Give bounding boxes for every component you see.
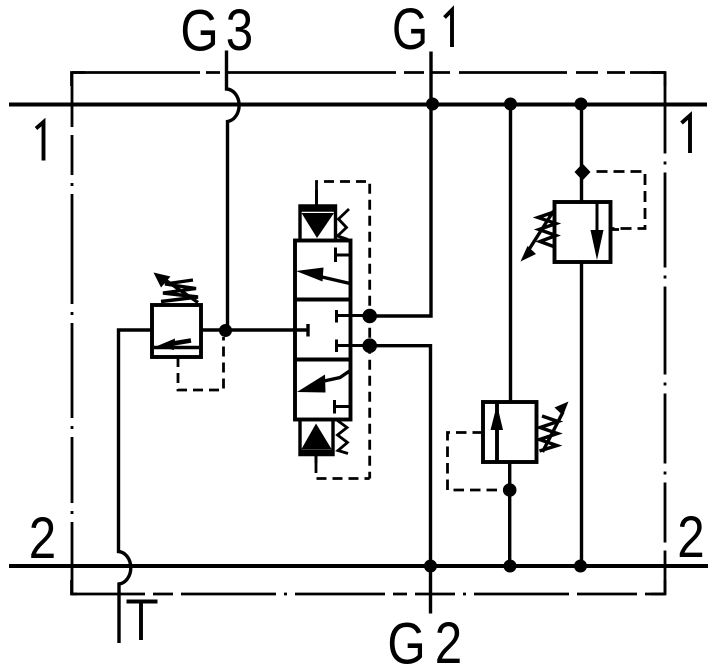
svg-text:G: G <box>387 612 425 672</box>
counterbalance valve CV1 body <box>483 402 537 462</box>
wire RV2 to line2 <box>580 262 583 566</box>
label 1 left <box>36 122 44 161</box>
svg-text:3: 3 <box>226 0 253 63</box>
counterbalance valve CV1 adjustable spring <box>540 412 564 452</box>
pilot line RV2 (dashed) <box>597 172 646 229</box>
port line 2 <box>9 564 708 568</box>
label T <box>127 602 158 641</box>
svg-text:G: G <box>392 0 428 62</box>
DV1 bottom position: blocked port <box>335 400 351 414</box>
wire G2 line <box>370 346 431 614</box>
svg-text:2: 2 <box>677 505 704 570</box>
directional valve DV1 body <box>295 241 351 420</box>
pilot line CV1 (dashed) <box>448 433 505 491</box>
node line1-G1 <box>426 98 439 111</box>
relief valve RV1 body <box>152 305 201 357</box>
node line1-right <box>575 98 588 111</box>
manifold block boundary (chain line) <box>72 73 665 595</box>
label G2 <box>387 611 462 672</box>
label G1 <box>392 0 452 62</box>
wire G3 vertical with crossover hump <box>227 51 240 331</box>
node J4 (RV2 pilot tap) <box>575 164 591 181</box>
wire G1 line <box>377 52 432 317</box>
relief valve RV1 adjustable spring <box>161 280 198 303</box>
DV1 centre position: blocked right port B <box>337 340 370 353</box>
DV1 top spring <box>338 209 350 240</box>
node J1 <box>219 324 232 337</box>
DV1 top position: flow path arrow <box>322 277 350 284</box>
DV1 pilot stubs (solid) <box>315 190 319 463</box>
counterbalance valve CV1 flow arrow (up) <box>491 405 504 431</box>
manifold boundary corner caps <box>72 73 666 595</box>
relief valve RV2 body <box>555 202 611 262</box>
label 1 right <box>682 116 691 154</box>
wire counterbalance valve to line2 <box>508 462 511 566</box>
wire RV1 outlet to node J1 and to directional valve <box>201 328 308 331</box>
relief valve RV1 flow arrow <box>154 339 199 351</box>
wire T drain line with crossover hump <box>119 330 153 643</box>
pilot line DV1 (dashed loop) <box>316 182 370 479</box>
node line1-mid <box>504 98 517 111</box>
DV1 bottom position: flow path arrow <box>324 371 350 381</box>
DV1 bottom spring <box>338 421 349 454</box>
pilot line RV1 (dashed) <box>178 337 224 390</box>
port line 1 <box>9 103 707 107</box>
node line2-mid <box>504 560 517 573</box>
DV1 centre position: blocked left port P <box>306 324 309 337</box>
node J2 (port A) <box>362 309 377 324</box>
DV1 bottom pilot head (check element) <box>299 420 335 455</box>
label G3 <box>180 0 253 63</box>
wire mid vertical (line1 to counterbalance valve) <box>509 104 512 402</box>
relief valve RV2 flow arrow (down) <box>591 202 604 260</box>
DV1 top pilot head (check element) <box>299 206 338 239</box>
node J3 (port B) <box>362 338 377 353</box>
node line2-G2 <box>424 560 437 573</box>
DV1 top position: blocked port <box>336 248 351 263</box>
DV1 centre position: blocked right port A <box>337 310 370 323</box>
wire right vertical (line1 to relief RV2) <box>580 104 583 202</box>
relief valve RV2 adjustable spring <box>528 211 556 251</box>
svg-text:G: G <box>180 0 218 63</box>
node J5 (CV1 pilot junction) <box>503 483 517 497</box>
svg-text:2: 2 <box>29 506 56 571</box>
node line2-right <box>574 560 587 573</box>
svg-text:2: 2 <box>435 611 462 672</box>
